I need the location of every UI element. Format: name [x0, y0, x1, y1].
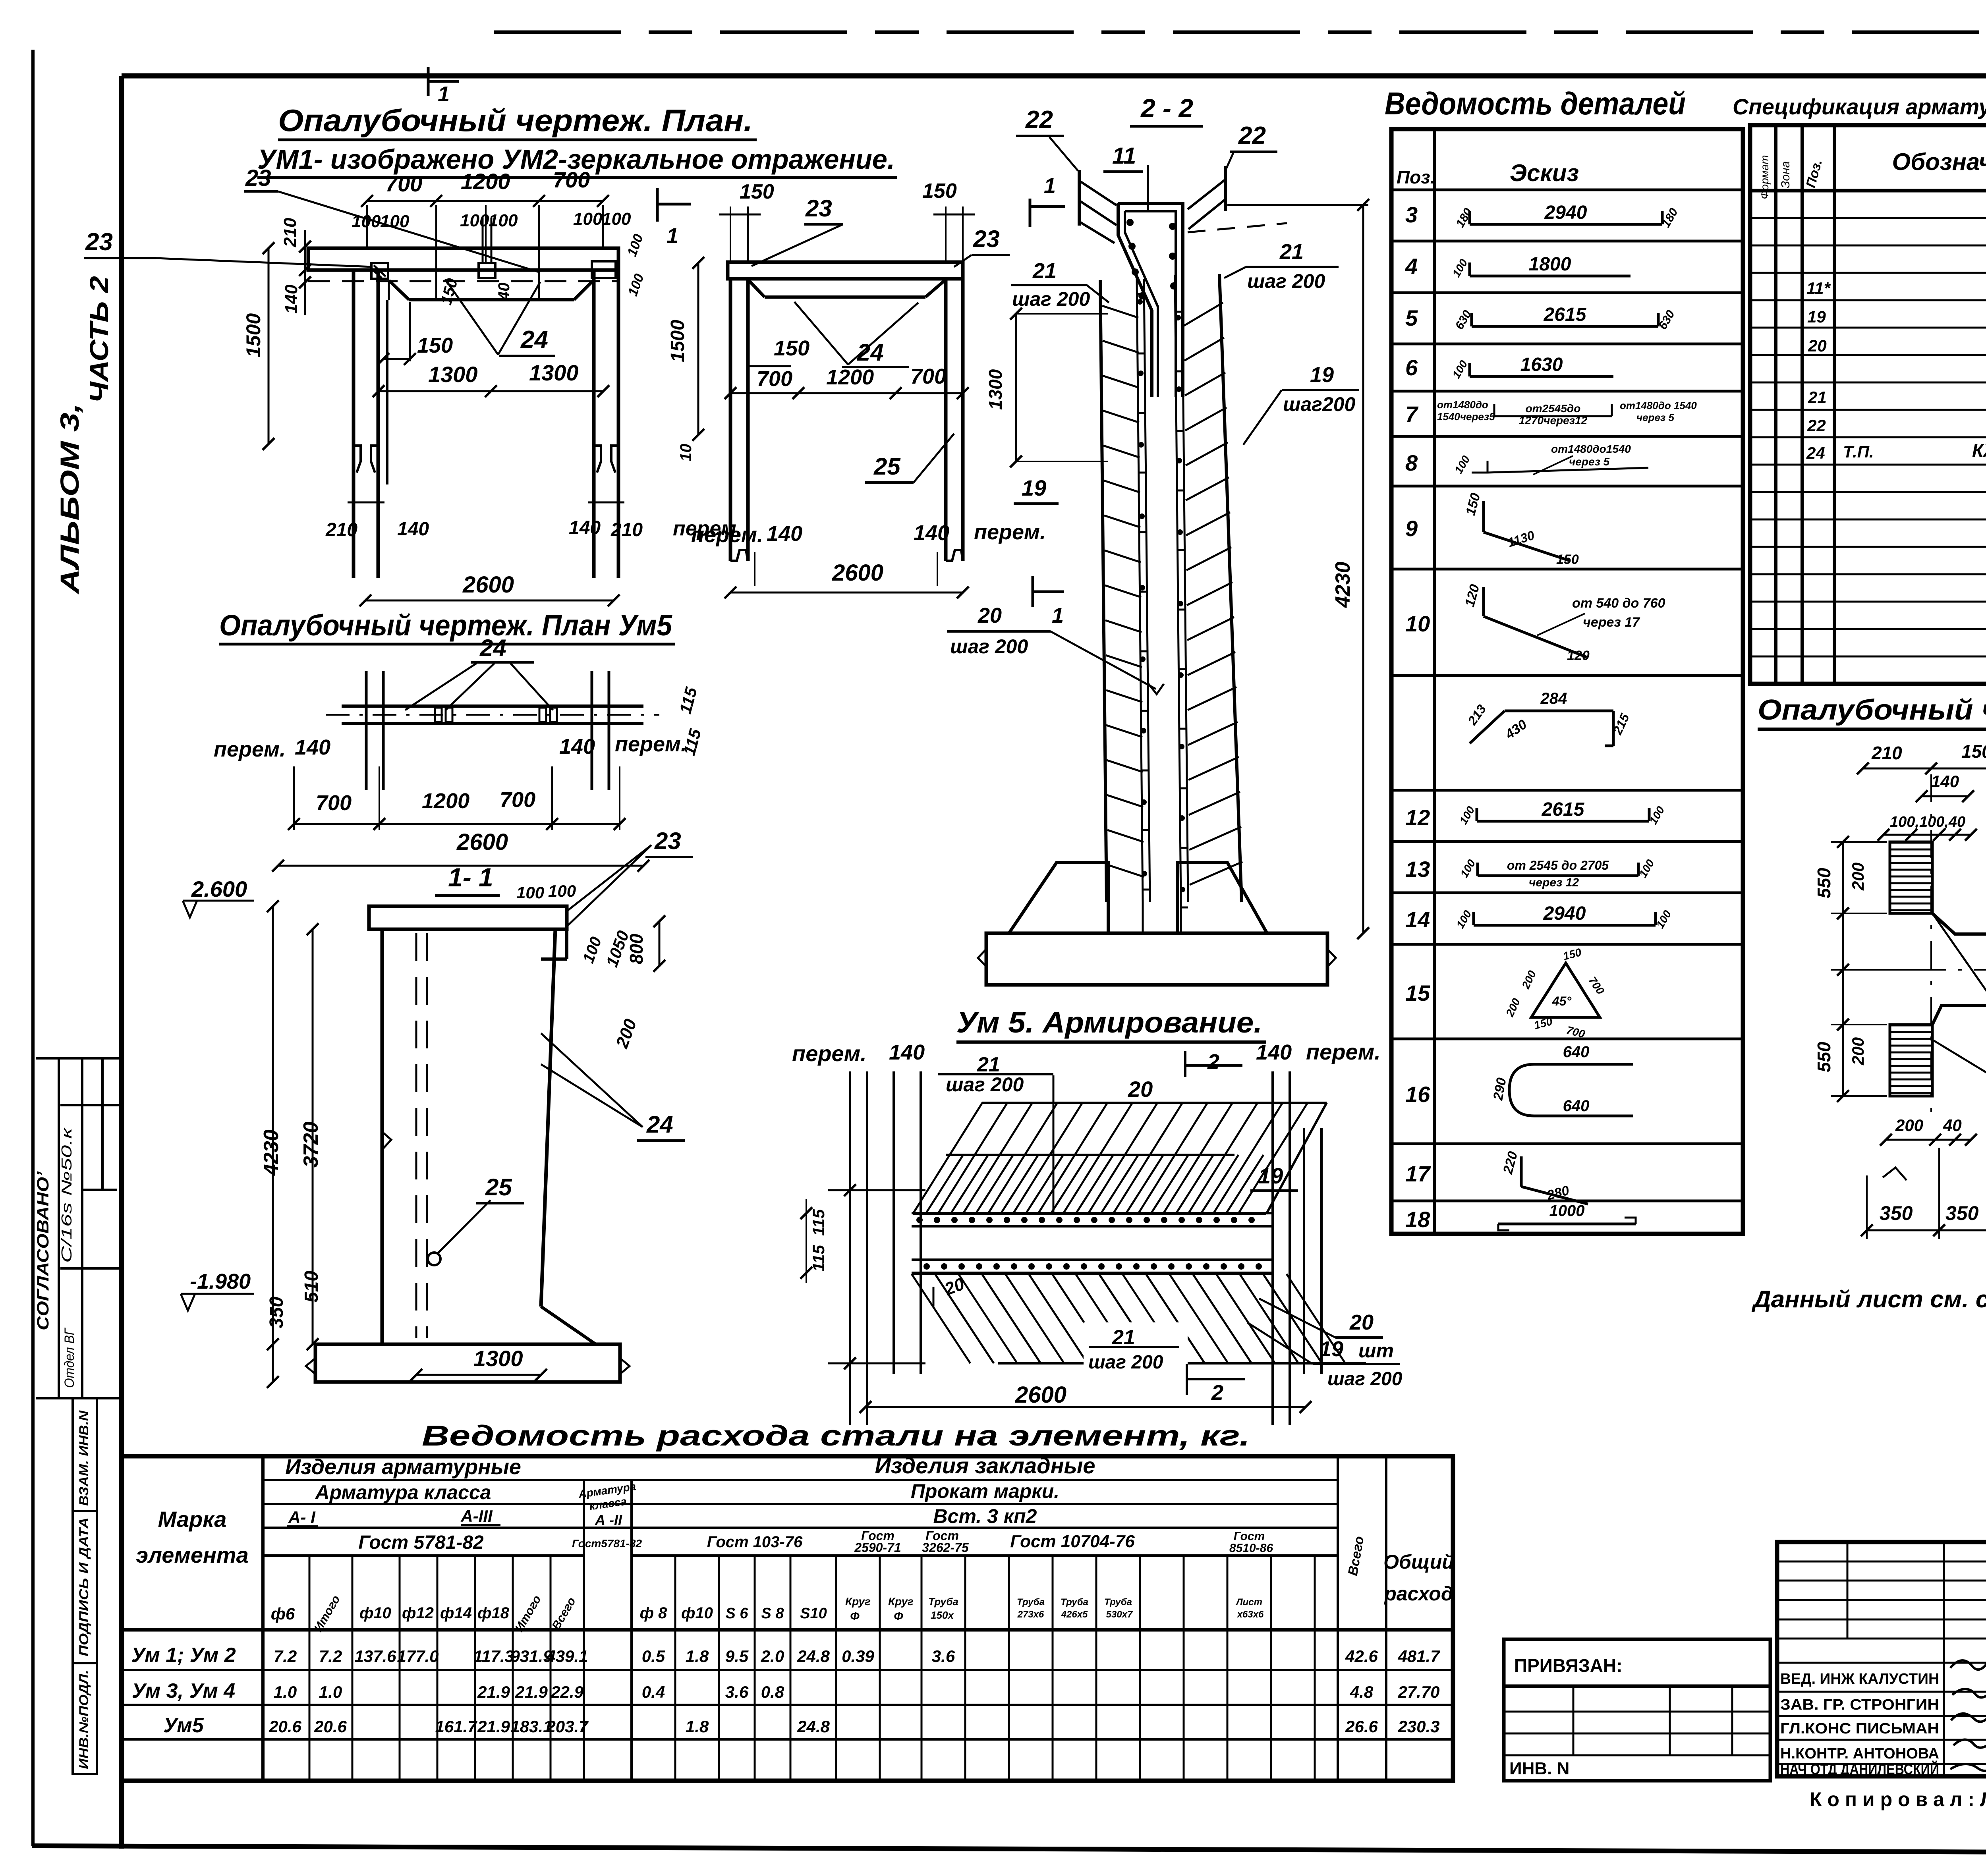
- svg-text:25: 25: [485, 1174, 512, 1200]
- svg-text:117.3: 117.3: [473, 1647, 514, 1666]
- sketch row 4: [1470, 275, 1631, 278]
- 2-2 funnel: [1078, 170, 1081, 226]
- svg-text:Ведомость расхода стали на: Ведомость расхода стали на элемент, кг.: [422, 1420, 1250, 1452]
- dim 4230 2-2: [1362, 205, 1364, 933]
- hatched block top: [1890, 842, 1932, 844]
- svg-text:14: 14: [1405, 907, 1430, 932]
- svg-text:Вст. 3 кп2: Вст. 3 кп2: [933, 1505, 1037, 1527]
- svg-text:А-III: А-III: [460, 1507, 493, 1525]
- svg-text:19: 19: [1807, 307, 1826, 326]
- svg-text:11*: 11*: [1806, 279, 1831, 297]
- cross left dims: [1842, 842, 1844, 1096]
- svg-text:140: 140: [569, 517, 601, 538]
- svg-text:2940: 2940: [1544, 202, 1587, 223]
- svg-text:1200: 1200: [422, 789, 469, 813]
- svg-text:700: 700: [553, 167, 590, 192]
- svg-text:140: 140: [397, 519, 429, 540]
- inner fan 19: [946, 1154, 1234, 1156]
- svg-text:700: 700: [757, 367, 792, 391]
- svg-text:Марка: Марка: [158, 1507, 227, 1532]
- svg-text:0.8: 0.8: [761, 1683, 784, 1701]
- svg-text:ГЛ.КОНС ПИСЬМАН: ГЛ.КОНС ПИСЬМАН: [1780, 1720, 1939, 1737]
- svg-text:1500: 1500: [667, 320, 688, 362]
- svg-text:через 17: через 17: [1583, 615, 1640, 630]
- dim 2600 bottom plan1: [365, 600, 614, 602]
- svg-text:4230: 4230: [1331, 562, 1354, 608]
- svg-text:100: 100: [548, 882, 576, 900]
- upper bars fan 20: [982, 1102, 1327, 1104]
- sketch row 14: [1474, 924, 1656, 927]
- svg-text:45°: 45°: [1552, 994, 1572, 1008]
- svg-text:3.6: 3.6: [932, 1647, 955, 1666]
- svg-text:ф14: ф14: [440, 1604, 472, 1622]
- cross outline: [1932, 913, 1986, 934]
- армирование bottom 2 marker: [1186, 1364, 1188, 1395]
- svg-text:Круг: Круг: [888, 1595, 914, 1608]
- svg-text:21.9: 21.9: [477, 1717, 510, 1736]
- svg-text:2615: 2615: [1544, 304, 1587, 325]
- plan2 V leader 24: [794, 302, 848, 365]
- svg-text:ИНВ.№ПОДЛ.: ИНВ.№ПОДЛ.: [77, 1670, 91, 1769]
- svg-text:23: 23: [654, 828, 681, 854]
- svg-text:2: 2: [1207, 1050, 1219, 1074]
- sketch row 6: [1470, 375, 1613, 378]
- svg-text:1.0: 1.0: [274, 1683, 297, 1701]
- svg-text:15: 15: [1405, 980, 1430, 1006]
- svg-text:2590-71: 2590-71: [854, 1540, 901, 1555]
- svg-text:7.2: 7.2: [274, 1647, 297, 1666]
- svg-text:3.6: 3.6: [725, 1683, 749, 1701]
- svg-text:21: 21: [1112, 1326, 1135, 1349]
- svg-text:20: 20: [1349, 1310, 1374, 1334]
- svg-text:800: 800: [626, 934, 647, 964]
- svg-text:9.5: 9.5: [725, 1647, 749, 1666]
- svg-text:9: 9: [1405, 516, 1418, 541]
- svg-text:17: 17: [1405, 1161, 1431, 1186]
- dim 1300 left 2-2: [1015, 314, 1017, 461]
- svg-text:3: 3: [1405, 202, 1418, 227]
- svg-text:Общий: Общий: [1383, 1551, 1454, 1573]
- svg-text:350: 350: [1880, 1202, 1913, 1224]
- svg-text:4.8: 4.8: [1350, 1683, 1374, 1701]
- left outer border: [31, 50, 35, 1846]
- svg-text:100,100,40: 100,100,40: [1890, 814, 1965, 830]
- svg-text:ПОДПИСЬ И ДАТА: ПОДПИСЬ И ДАТА: [77, 1517, 91, 1656]
- svg-text:6: 6: [1405, 355, 1418, 380]
- svg-text:1300: 1300: [428, 362, 478, 387]
- svg-text:Поз.: Поз.: [1397, 167, 1435, 187]
- svg-text:550: 550: [1814, 868, 1834, 898]
- svg-text:22: 22: [1025, 106, 1053, 133]
- svg-text:150: 150: [1556, 552, 1579, 567]
- svg-text:НАЧ ОТД ДАНИЛЕВСКИЙ: НАЧ ОТД ДАНИЛЕВСКИЙ: [1780, 1760, 1939, 1778]
- svg-text:ф6: ф6: [271, 1604, 295, 1623]
- svg-text:АЛЬБОМ 3,: АЛЬБОМ 3,: [55, 403, 84, 595]
- svg-text:Ведомость деталей: Ведомость деталей: [1385, 86, 1686, 121]
- svg-text:23: 23: [245, 165, 271, 191]
- svg-text:24.8: 24.8: [797, 1647, 830, 1666]
- sketch row 16: [1509, 1064, 1633, 1116]
- svg-text:4230: 4230: [260, 1129, 283, 1176]
- svg-text:Ум5: Ум5: [163, 1714, 204, 1737]
- svg-text:350: 350: [266, 1297, 287, 1328]
- svg-text:700: 700: [316, 791, 352, 815]
- svg-text:137.6: 137.6: [354, 1647, 396, 1666]
- svg-text:2615: 2615: [1542, 799, 1585, 820]
- svg-text:3720: 3720: [299, 1121, 323, 1168]
- svg-text:Лист: Лист: [1235, 1597, 1262, 1608]
- svg-text:22: 22: [1238, 122, 1266, 149]
- svg-text:от1480до1540: от1480до1540: [1551, 443, 1631, 455]
- svg-text:1.8: 1.8: [686, 1717, 709, 1736]
- sketch row 5: [1472, 325, 1658, 328]
- svg-text:Гост 103-76: Гост 103-76: [707, 1533, 803, 1551]
- svg-text:150: 150: [417, 334, 453, 357]
- svg-text:Опалубочный чертеж.: Опалубочный чертеж.: [1758, 694, 1986, 726]
- plan1 1300 dims: [379, 390, 603, 392]
- signatures: [1950, 1657, 1986, 1669]
- svg-text:21.9: 21.9: [515, 1683, 548, 1701]
- svg-text:0.4: 0.4: [642, 1683, 665, 1701]
- svg-text:140: 140: [1931, 772, 1959, 791]
- svg-text:1540через5: 1540через5: [1437, 411, 1495, 423]
- svg-text:19: 19: [1022, 475, 1046, 500]
- svg-text:42.6: 42.6: [1345, 1647, 1378, 1666]
- svg-text:24: 24: [520, 326, 548, 353]
- title block stamp: [1777, 1542, 1986, 1776]
- svg-text:5: 5: [1405, 305, 1418, 330]
- армирование wall verticals: [849, 1071, 851, 1425]
- svg-text:А -II: А -II: [595, 1512, 622, 1528]
- bottom border: [32, 1846, 1986, 1854]
- svg-text:700: 700: [500, 788, 535, 812]
- svg-text:от1480до 1540: от1480до 1540: [1620, 400, 1697, 411]
- svg-text:120: 120: [1567, 648, 1590, 663]
- svg-text:150: 150: [740, 180, 774, 203]
- svg-text:Опалубочный чертеж. План.: Опалубочный чертеж. План.: [278, 103, 753, 138]
- hatched block bottom: [1890, 1025, 1932, 1027]
- svg-text:20.6: 20.6: [269, 1717, 301, 1736]
- svg-text:ф18: ф18: [477, 1604, 510, 1622]
- svg-text:16: 16: [1405, 1082, 1430, 1107]
- svg-text:210: 210: [610, 519, 643, 540]
- svg-text:1500: 1500: [242, 313, 265, 357]
- svg-text:шаг 200: шаг 200: [1088, 1352, 1163, 1373]
- svg-text:200: 200: [1849, 863, 1867, 891]
- svg-text:расход: расход: [1383, 1583, 1453, 1605]
- svg-text:640: 640: [1563, 1097, 1590, 1115]
- sketch row 10: [1482, 587, 1485, 616]
- svg-text:210: 210: [280, 218, 300, 247]
- svg-text:2: 2: [1211, 1381, 1223, 1405]
- white gap + label 21 шаг 200 bottom: [1084, 1322, 1188, 1375]
- svg-text:200: 200: [1895, 1116, 1923, 1135]
- plan1 main bar: [308, 248, 618, 270]
- svg-text:Прокат марки.: Прокат марки.: [911, 1480, 1059, 1502]
- svg-text:ф 8: ф 8: [640, 1604, 668, 1622]
- sketch row 13: [1478, 874, 1638, 877]
- column hatched bands 2-2: [1100, 280, 1107, 902]
- svg-text:КЖ.И. 64.0.0: КЖ.И. 64.0.0: [1972, 440, 1986, 461]
- svg-text:Труба: Труба: [1061, 1597, 1088, 1608]
- svg-text:от2545до: от2545до: [1526, 402, 1581, 415]
- svg-text:Обозначение: Обозначение: [1892, 149, 1986, 175]
- svg-text:2.600: 2.600: [191, 876, 247, 901]
- plan2 top bar: [728, 262, 963, 279]
- svg-text:1: 1: [1044, 174, 1056, 198]
- section flags 1 plan2: [656, 188, 659, 222]
- sidebar inv column: [73, 1398, 97, 1774]
- svg-text:Гост 10704-76: Гост 10704-76: [1010, 1532, 1135, 1551]
- svg-text:Данный лист см. совместно с: Данный лист см. совместно с л. 35, 37.: [1751, 1286, 1986, 1312]
- svg-text:Труба: Труба: [1104, 1597, 1132, 1608]
- svg-text:шаг 200: шаг 200: [1012, 288, 1090, 310]
- svg-text:7: 7: [1405, 401, 1419, 427]
- svg-text:150: 150: [1961, 741, 1986, 762]
- svg-text:перем.: перем.: [974, 520, 1046, 544]
- svg-text:ЧАСТЬ 2: ЧАСТЬ 2: [84, 276, 114, 403]
- svg-text:100: 100: [602, 209, 631, 229]
- svg-text:20.6: 20.6: [314, 1717, 347, 1736]
- label 25 1-1: [428, 1253, 440, 1265]
- svg-text:700: 700: [385, 171, 422, 196]
- sketch row 11: [1505, 710, 1613, 712]
- svg-text:Труба: Труба: [928, 1596, 958, 1608]
- svg-text:ВЗАМ. ИНВ.N: ВЗАМ. ИНВ.N: [77, 1410, 91, 1506]
- svg-text:140: 140: [767, 522, 802, 546]
- svg-text:11: 11: [1112, 143, 1136, 169]
- svg-text:Ф: Ф: [894, 1610, 903, 1623]
- plan1 leg notches: [354, 446, 361, 473]
- svg-text:21.9: 21.9: [477, 1683, 510, 1701]
- svg-text:550: 550: [1814, 1042, 1834, 1072]
- svg-text:10: 10: [677, 444, 695, 462]
- section flag 1 plan1 top: [427, 67, 430, 96]
- plan1 inner opening: [409, 298, 574, 301]
- svg-text:2940: 2940: [1543, 903, 1586, 924]
- mesh bars: [912, 1212, 1271, 1214]
- svg-text:шт: шт: [1358, 1339, 1394, 1362]
- svg-text:1200: 1200: [826, 365, 874, 389]
- svg-text:шаг 200: шаг 200: [946, 1073, 1024, 1096]
- svg-text:К о п и р о в а л : Л о г и н: К о п и р о в а л : Л о г и н о в а: [1810, 1788, 1986, 1810]
- svg-text:1200: 1200: [461, 169, 510, 194]
- svg-text:25: 25: [873, 453, 901, 480]
- svg-text:1: 1: [667, 224, 678, 248]
- svg-text:2 - 2: 2 - 2: [1140, 93, 1193, 123]
- svg-text:х63х6: х63х6: [1236, 1609, 1264, 1620]
- 1-1 left dims: [272, 906, 274, 1382]
- svg-text:А- I: А- I: [288, 1508, 316, 1527]
- svg-text:24: 24: [479, 635, 506, 661]
- svg-text:шаг 200: шаг 200: [1247, 270, 1325, 292]
- svg-text:140: 140: [1256, 1040, 1292, 1064]
- svg-text:100: 100: [460, 211, 489, 230]
- svg-text:Ум 5. Армирование.: Ум 5. Армирование.: [956, 1006, 1262, 1039]
- svg-text:700: 700: [910, 365, 946, 388]
- svg-text:Гост 5781-82: Гост 5781-82: [358, 1532, 484, 1553]
- svg-text:100: 100: [516, 883, 544, 902]
- svg-text:10: 10: [1405, 611, 1430, 636]
- svg-text:2.0: 2.0: [761, 1647, 784, 1666]
- svg-text:8: 8: [1405, 450, 1418, 475]
- svg-text:13: 13: [1405, 857, 1430, 882]
- svg-text:510: 510: [301, 1271, 322, 1303]
- svg-text:ф10: ф10: [359, 1604, 391, 1622]
- svg-text:530х7: 530х7: [1106, 1609, 1133, 1620]
- svg-text:2600: 2600: [462, 572, 514, 598]
- sketch row 12: [1477, 820, 1649, 823]
- svg-text:-1.980: -1.980: [190, 1270, 251, 1293]
- svg-text:1: 1: [438, 82, 450, 106]
- svg-text:С/16s №50.к: С/16s №50.к: [58, 1127, 75, 1263]
- svg-text:27.70: 27.70: [1397, 1683, 1439, 1701]
- svg-text:150х: 150х: [931, 1609, 954, 1621]
- svg-text:ИНВ. N: ИНВ. N: [1509, 1759, 1569, 1778]
- svg-text:22.9: 22.9: [551, 1683, 583, 1701]
- svg-text:22: 22: [1807, 416, 1826, 435]
- svg-text:200: 200: [1849, 1037, 1867, 1065]
- svg-text:от1480до: от1480до: [1437, 399, 1488, 411]
- svg-text:Изделия арматурные: Изделия арматурные: [285, 1455, 521, 1479]
- svg-text:4: 4: [1405, 254, 1418, 279]
- top dash-dot border line: [494, 31, 1986, 34]
- svg-text:2600: 2600: [832, 560, 883, 586]
- svg-text:24: 24: [646, 1111, 673, 1138]
- svg-text:перем.: перем.: [792, 1041, 867, 1066]
- sidebar approval box: [36, 1057, 120, 1060]
- svg-text:210: 210: [325, 519, 357, 540]
- svg-text:20: 20: [1128, 1077, 1153, 1102]
- sketch row 17: [1520, 1156, 1523, 1187]
- svg-text:284: 284: [1540, 690, 1567, 707]
- svg-text:100: 100: [573, 209, 603, 229]
- svg-text:20: 20: [978, 604, 1002, 627]
- svg-text:2600: 2600: [1015, 1382, 1066, 1408]
- svg-text:1270через12: 1270через12: [1519, 414, 1588, 427]
- svg-text:1000: 1000: [1549, 1202, 1585, 1220]
- svg-text:через 5: через 5: [1636, 411, 1674, 423]
- main frame: [122, 73, 1986, 79]
- svg-text:230.3: 230.3: [1397, 1717, 1439, 1736]
- label 23 cross: [1932, 913, 1986, 1133]
- svg-text:8510-86: 8510-86: [1229, 1542, 1273, 1555]
- svg-text:140: 140: [295, 735, 330, 759]
- svg-text:шаг200: шаг200: [1283, 393, 1356, 415]
- svg-text:19: 19: [1319, 1337, 1343, 1361]
- svg-text:1.8: 1.8: [686, 1647, 709, 1666]
- svg-text:Отдел ВГ: Отдел ВГ: [62, 1328, 77, 1388]
- svg-text:Опалубочный чертеж. План Ум5: Опалубочный чертеж. План Ум5: [219, 609, 673, 642]
- svg-text:140: 140: [914, 521, 949, 545]
- svg-text:1300: 1300: [985, 369, 1006, 410]
- svg-text:140: 140: [889, 1040, 925, 1064]
- svg-text:S 8: S 8: [761, 1605, 784, 1622]
- sketch row 9: [1482, 501, 1485, 532]
- svg-text:Т.П.: Т.П.: [1843, 442, 1874, 461]
- svg-text:20: 20: [1808, 336, 1827, 355]
- svg-text:150: 150: [774, 336, 809, 360]
- svg-text:3262-75: 3262-75: [922, 1540, 969, 1555]
- svg-text:40: 40: [495, 283, 513, 301]
- svg-text:ВЕД. ИНЖ КАЛУСТИН: ВЕД. ИНЖ КАЛУСТИН: [1780, 1671, 1939, 1687]
- svg-text:1300: 1300: [529, 360, 579, 385]
- svg-text:26.6: 26.6: [1345, 1717, 1378, 1736]
- svg-text:24.8: 24.8: [797, 1717, 830, 1736]
- svg-text:19: 19: [1258, 1163, 1283, 1188]
- svg-text:21: 21: [1032, 259, 1057, 283]
- svg-text:ф10: ф10: [681, 1604, 713, 1622]
- svg-text:от 540 до 760: от 540 до 760: [1572, 596, 1665, 611]
- svg-text:Формат: Формат: [1758, 155, 1771, 199]
- svg-text:1: 1: [1052, 604, 1064, 627]
- svg-text:115: 115: [809, 1209, 828, 1236]
- svg-text:23: 23: [85, 228, 113, 256]
- svg-text:350: 350: [1945, 1202, 1979, 1224]
- svg-text:Круг: Круг: [845, 1595, 871, 1608]
- svg-text:23: 23: [805, 195, 832, 222]
- svg-text:S10: S10: [800, 1605, 827, 1622]
- svg-text:1800: 1800: [1529, 254, 1571, 275]
- svg-text:1300: 1300: [473, 1346, 523, 1371]
- svg-text:1- 1: 1- 1: [448, 863, 493, 892]
- svg-text:Ф: Ф: [850, 1610, 860, 1623]
- sketch row 3: [1470, 223, 1662, 226]
- svg-text:через 12: через 12: [1529, 876, 1579, 889]
- svg-text:Труба: Труба: [1017, 1597, 1045, 1608]
- svg-text:439.1: 439.1: [546, 1647, 588, 1666]
- svg-text:273х6: 273х6: [1017, 1609, 1044, 1620]
- svg-text:шаг 200: шаг 200: [1327, 1368, 1403, 1390]
- svg-text:21: 21: [1808, 388, 1827, 407]
- svg-text:12: 12: [1405, 805, 1430, 830]
- svg-text:23: 23: [973, 226, 1000, 252]
- svg-text:40: 40: [1943, 1116, 1962, 1135]
- svg-text:СОГЛАСОВАНОʼ: СОГЛАСОВАНОʼ: [33, 1171, 52, 1330]
- svg-text:481.7: 481.7: [1397, 1647, 1440, 1666]
- svg-text:ф12: ф12: [402, 1604, 434, 1622]
- foundation 2-2: [1009, 863, 1108, 933]
- svg-text:21: 21: [1279, 240, 1304, 264]
- svg-text:через 5: через 5: [1569, 455, 1610, 468]
- svg-text:ЗАВ. ГР. СТРОНГИН: ЗАВ. ГР. СТРОНГИН: [1780, 1697, 1939, 1713]
- svg-text:1630: 1630: [1520, 354, 1563, 375]
- svg-text:210: 210: [1871, 743, 1902, 763]
- svg-text:Ум 1; Ум 2: Ум 1; Ум 2: [131, 1644, 236, 1667]
- section flag 1 (2-2 bottom): [1032, 576, 1034, 607]
- svg-text:19: 19: [1310, 363, 1334, 387]
- svg-text:S 6: S 6: [725, 1605, 748, 1622]
- svg-text:177.0: 177.0: [397, 1647, 439, 1666]
- svg-text:Спецификация арматурных издели: Спецификация арматурных изделий монолитн…: [1733, 94, 1986, 119]
- dim 2600 bottom plan2: [730, 592, 963, 594]
- sketch row 18: [1498, 1223, 1636, 1226]
- svg-text:1.0: 1.0: [319, 1683, 342, 1701]
- plan1 legs: [352, 270, 355, 578]
- svg-text:426х5: 426х5: [1061, 1609, 1088, 1620]
- svg-text:перем.: перем.: [214, 737, 286, 761]
- svg-text:2600: 2600: [456, 829, 508, 855]
- 1-1 column: [369, 906, 567, 929]
- svg-text:Гост5781-82: Гост5781-82: [572, 1537, 642, 1550]
- svg-text:от 2545 до 2705: от 2545 до 2705: [1507, 858, 1609, 872]
- svg-text:перем.: перем.: [1306, 1039, 1381, 1064]
- svg-text:Ум 3, Ум 4: Ум 3, Ум 4: [132, 1679, 235, 1702]
- svg-text:140: 140: [559, 735, 595, 759]
- svg-text:150: 150: [922, 179, 957, 203]
- svg-text:Зона: Зона: [1779, 161, 1792, 188]
- svg-text:элемента: элемента: [136, 1542, 248, 1567]
